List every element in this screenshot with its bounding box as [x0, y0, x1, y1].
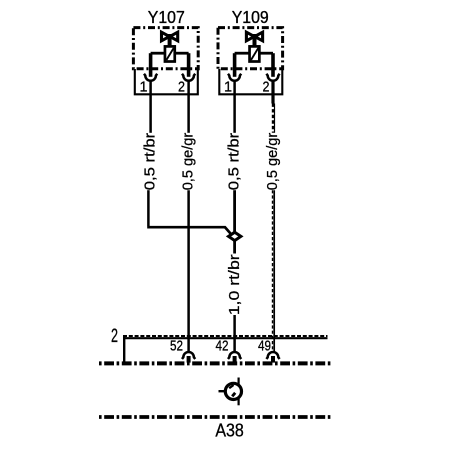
pin 49 socket [266, 352, 279, 359]
circle symbol inner mark [232, 393, 235, 397]
pin 52 socket [182, 352, 195, 359]
svg-text:1: 1 [140, 80, 148, 96]
wire W3 below junction [233, 240, 236, 253]
svg-text:1: 1 [224, 80, 232, 96]
svg-text:1,0 rt/br: 1,0 rt/br [226, 254, 243, 315]
svg-text:2: 2 [178, 80, 185, 96]
connector strip solid line [123, 337, 328, 339]
wire W3 upper segment (Y109 pin1) [233, 81, 236, 133]
svg-text:A38: A38 [215, 421, 244, 441]
Y109 pin1 socket [228, 74, 241, 81]
Y107 pin1 drop wire [149, 53, 153, 77]
solenoid valve Y107 [133, 7, 198, 96]
wire W4 pin stub (Y109 pin2) [271, 81, 274, 104]
wire W1 horizontal jog [147, 227, 231, 235]
Y107 solenoid coil rectangle [165, 46, 175, 61]
wire W2 lower segment to pin 52 [187, 190, 190, 351]
circle symbol inner diagonal [229, 385, 233, 388]
Y107 dash-dot component box [133, 28, 198, 69]
label Y109 [232, 7, 269, 27]
Y109 coil diagonal [251, 48, 258, 60]
pin 42 stub [233, 356, 237, 363]
Y107 left lead wire [151, 52, 165, 55]
connector strip dashed top [123, 335, 328, 337]
Y109 right lead wire [260, 52, 274, 55]
pin 42 socket [228, 352, 241, 359]
circle symbol left stub [219, 390, 226, 392]
control unit A38 connector area [99, 326, 331, 441]
label Y107 [148, 7, 185, 27]
Y109 valve stem [253, 34, 257, 47]
svg-text:2: 2 [111, 326, 118, 347]
pin 49 stub [271, 356, 275, 363]
circle symbol bottom tick [238, 398, 240, 405]
Y107 pin2 socket [182, 74, 195, 81]
Y109 dash-dot component box [218, 28, 283, 69]
Y107 valve bowtie left triangle [162, 32, 170, 41]
circle symbol top tick [238, 378, 240, 385]
svg-text:0,5 ge/gr: 0,5 ge/gr [180, 133, 197, 191]
Y109 solenoid coil rectangle [250, 46, 260, 61]
svg-text:42: 42 [216, 338, 229, 355]
Y109 valve bowtie right triangle [255, 32, 263, 41]
wire W4 solid line lower [273, 190, 275, 351]
Y107 right lead wire [175, 52, 189, 55]
Y107 pin1 socket [144, 74, 157, 81]
junction splice diamond [229, 232, 241, 240]
Y109 valve bowtie left triangle [246, 32, 254, 41]
Y107 pin2 drop wire [187, 53, 191, 77]
Y109 connector box [219, 69, 282, 94]
wire W1 upper segment (Y107 pin1) [149, 81, 152, 133]
A38 boundary dash-dot line lower [99, 415, 331, 419]
pin 52 stub [187, 356, 191, 363]
Y109 pin2 socket [266, 74, 279, 81]
svg-text:0,5 rt/br: 0,5 rt/br [226, 133, 243, 191]
Y107 connector box [135, 69, 198, 94]
wire W1 lower segment [147, 190, 150, 226]
Y107 valve stem [168, 34, 172, 47]
svg-text:0,5 rt/br: 0,5 rt/br [142, 133, 159, 191]
svg-text:2: 2 [263, 80, 270, 96]
Y109 pin2 drop wire [271, 53, 275, 77]
A38 boundary dash-dot line upper [99, 361, 331, 365]
svg-text:Y109: Y109 [232, 7, 269, 27]
wire W3 middle segment [233, 190, 236, 232]
svg-text:Y107: Y107 [148, 7, 185, 27]
svg-text:49: 49 [258, 338, 271, 355]
hydraulic unit circle symbol [225, 383, 241, 399]
connector left stub [123, 337, 125, 362]
Y107 valve bowtie right triangle [170, 32, 178, 41]
solenoid valve Y109 [218, 7, 283, 96]
wire W4 dashed companion upper [272, 104, 274, 133]
Y107 coil diagonal [166, 48, 173, 60]
wire W4 solid line upper [274, 104, 276, 133]
wire W3 lower segment to pin 42 [233, 315, 236, 352]
svg-text:0,5 ge/gr: 0,5 ge/gr [264, 133, 281, 191]
Y109 left lead wire [235, 52, 250, 55]
wire W2 upper segment (Y107 pin2) [187, 81, 190, 133]
wire W4 dashed companion lower [272, 190, 274, 351]
wires [142, 81, 281, 352]
Y109 pin1 drop wire [233, 53, 237, 77]
svg-text:52: 52 [170, 338, 183, 355]
